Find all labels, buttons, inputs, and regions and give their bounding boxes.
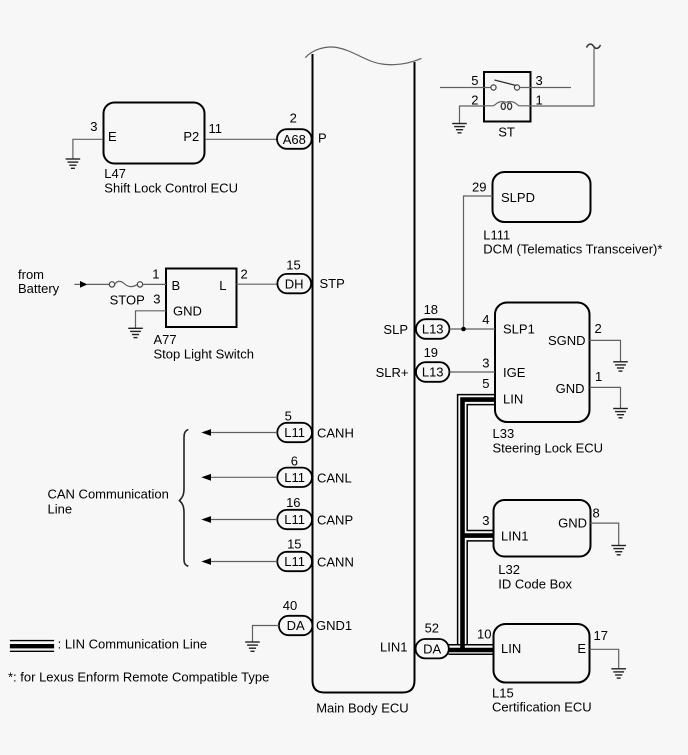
wire GND to ground	[590, 387, 621, 408]
svg-text:L47: L47	[104, 166, 126, 181]
svg-text:SLPD: SLPD	[501, 190, 535, 205]
svg-text:A77: A77	[154, 332, 177, 347]
svg-text:L11: L11	[284, 512, 305, 527]
LIN bus branch thick to L32	[461, 533, 494, 538]
wire L32 GND to ground	[591, 523, 619, 545]
svg-text:4: 4	[482, 312, 489, 327]
svg-text:CANH: CANH	[317, 426, 354, 441]
svg-text:GND: GND	[556, 381, 585, 396]
LIN bus outer thin line	[458, 395, 495, 645]
wire CANP arrow	[211, 519, 277, 521]
connector DH pin 15 STP	[277, 258, 344, 294]
ST relay box	[471, 72, 542, 140]
svg-text:*: for Lexus Enform Remote Com: *: for Lexus Enform Remote Compatible Ty…	[8, 670, 269, 685]
svg-text:SGND: SGND	[548, 333, 586, 348]
svg-text:52: 52	[425, 621, 439, 636]
wire SLPD pin 29 down to SLP node	[464, 196, 493, 329]
svg-text:DA: DA	[423, 641, 441, 656]
svg-text:40: 40	[283, 598, 297, 613]
svg-text:LIN: LIN	[503, 392, 523, 407]
connector L11 pin 16 CANP	[277, 495, 353, 529]
node junction dot	[461, 327, 466, 332]
svg-text:: LIN Communication Line: : LIN Communication Line	[58, 637, 208, 652]
svg-text:L11: L11	[284, 554, 305, 569]
svg-text:Main Body ECU: Main Body ECU	[316, 701, 408, 716]
svg-text:GND: GND	[558, 516, 587, 531]
ground at L32	[611, 546, 626, 555]
certification ECU L15	[477, 624, 608, 715]
connector L13 pin 19 SLR+	[376, 345, 450, 382]
svg-text:DCM (Telematics Transceiver)*: DCM (Telematics Transceiver)*	[483, 242, 662, 257]
svg-text:17: 17	[594, 628, 608, 643]
LIN bus thick line	[463, 400, 496, 651]
svg-text:3: 3	[536, 73, 543, 88]
wire battery to fuse	[87, 283, 109, 285]
svg-text:10: 10	[477, 627, 491, 642]
svg-text:3: 3	[90, 119, 97, 134]
svg-text:Shift Lock Control ECU: Shift Lock Control ECU	[104, 181, 238, 196]
svg-text:P: P	[318, 130, 327, 145]
svg-text:15: 15	[287, 536, 301, 551]
svg-text:LIN: LIN	[501, 641, 521, 656]
svg-text:GND1: GND1	[316, 618, 352, 633]
connector A68 pin 2	[277, 111, 327, 149]
wire CANL arrow	[211, 476, 277, 478]
ground at ST	[452, 124, 467, 133]
LIN bus to L15 bottom thin	[449, 653, 494, 655]
svg-text:E: E	[108, 129, 117, 144]
svg-text:3: 3	[482, 513, 489, 528]
LIN bus inner thin line upper	[467, 405, 495, 531]
svg-text:DH: DH	[285, 276, 304, 291]
wire break squiggle	[587, 44, 601, 48]
ID code box L32	[482, 500, 599, 592]
svg-text:1: 1	[595, 369, 602, 384]
svg-text:CANP: CANP	[317, 512, 353, 527]
svg-text:CANL: CANL	[317, 470, 352, 485]
svg-text:6: 6	[291, 453, 298, 468]
svg-text:L13: L13	[422, 365, 444, 380]
ST relay coil	[484, 102, 531, 106]
svg-text:from: from	[18, 267, 44, 282]
main body ECU box	[305, 47, 421, 715]
svg-text:2: 2	[290, 111, 297, 126]
svg-text:2: 2	[471, 93, 478, 108]
svg-text:Line: Line	[48, 502, 73, 517]
svg-text:B: B	[172, 278, 181, 293]
LIN bus to L15 top thin	[449, 644, 494, 646]
svg-text:8: 8	[593, 506, 600, 521]
svg-text:3: 3	[482, 356, 489, 371]
svg-text:19: 19	[424, 345, 438, 360]
battery feed arrow	[74, 283, 80, 285]
ground at L47	[66, 159, 81, 168]
wire ST pin 1 up to break	[531, 49, 595, 107]
ground at A77	[128, 328, 143, 337]
svg-text:CANN: CANN	[317, 554, 354, 569]
svg-text:1: 1	[152, 266, 159, 281]
from battery label	[18, 267, 60, 296]
stop light switch A77	[152, 266, 254, 361]
svg-text:E: E	[577, 641, 586, 656]
svg-text:Battery: Battery	[18, 281, 60, 296]
svg-text:SLP1: SLP1	[503, 322, 535, 337]
svg-text:5: 5	[471, 73, 478, 88]
brace CAN group	[180, 430, 189, 567]
wire ST pin 5	[440, 87, 491, 89]
shift lock control ECU L47	[90, 103, 238, 196]
svg-text:P2: P2	[183, 129, 199, 144]
svg-text:ID Code Box: ID Code Box	[498, 577, 572, 592]
svg-text:L13: L13	[422, 322, 444, 337]
svg-text:IGE: IGE	[503, 365, 526, 380]
svg-text:A68: A68	[283, 132, 306, 147]
svg-text:STP: STP	[320, 276, 345, 291]
connector L13 pin 18 SLP	[383, 302, 449, 339]
LIN legend symbol	[10, 637, 207, 652]
CAN communication line label	[48, 487, 169, 517]
ground at L33 GND	[613, 409, 628, 418]
wire ST pin 3	[520, 87, 571, 89]
svg-text:GND: GND	[173, 304, 202, 319]
connector L11 pin 5 CANH	[277, 409, 354, 443]
svg-text:SLP: SLP	[383, 322, 408, 337]
connector L11 pin 15 CANN	[277, 536, 354, 571]
wire ST pin 2 to ground	[460, 106, 485, 123]
svg-text:L32: L32	[498, 562, 520, 577]
wire SLR+ to IGE	[449, 371, 495, 373]
connector DA pin 40 GND1	[279, 598, 352, 635]
wire CANH arrow	[211, 432, 277, 434]
svg-text:15: 15	[286, 258, 300, 273]
wire GND1 to ground	[253, 626, 279, 642]
wire A77 L pin 2 to connector DH	[237, 283, 278, 285]
svg-text:L11: L11	[284, 425, 305, 440]
wire fuse to A77 B pin 1	[143, 283, 166, 285]
svg-text:CAN Communication: CAN Communication	[48, 487, 169, 502]
svg-text:2: 2	[241, 267, 248, 282]
svg-text:L33: L33	[493, 426, 515, 441]
svg-text:5: 5	[285, 409, 292, 424]
connector DA pin 52 LIN1	[380, 621, 449, 659]
wire SGND to ground	[590, 340, 621, 361]
LIN bus inner thin line lower	[467, 541, 493, 645]
wire L47 E to ground	[73, 139, 103, 158]
svg-text:LIN1: LIN1	[501, 529, 528, 544]
steering lock ECU L33	[482, 303, 603, 456]
svg-text:Certification ECU: Certification ECU	[492, 700, 592, 715]
DCM telematics transceiver L111	[472, 172, 662, 257]
fuse STOP	[109, 281, 144, 307]
svg-text:1: 1	[536, 93, 543, 108]
wire CANN arrow	[211, 561, 277, 563]
svg-text:SLR+: SLR+	[376, 365, 409, 380]
wire SLP to SLP1	[449, 328, 495, 330]
ground at GND1	[245, 642, 260, 651]
connector L11 pin 6 CANL	[277, 453, 351, 487]
svg-text:L: L	[219, 278, 226, 293]
svg-text:Stop Light Switch: Stop Light Switch	[154, 347, 254, 362]
svg-text:DA: DA	[287, 618, 305, 633]
svg-text:L15: L15	[492, 686, 514, 701]
svg-text:L111: L111	[483, 228, 510, 243]
wire A77 GND pin 3 to ground	[136, 311, 167, 328]
svg-text:LIN1: LIN1	[380, 640, 407, 655]
svg-text:11: 11	[209, 121, 223, 136]
svg-text:STOP: STOP	[110, 293, 145, 308]
svg-text:Steering Lock ECU: Steering Lock ECU	[493, 441, 604, 456]
ST switch contacts	[491, 80, 520, 90]
svg-text:5: 5	[482, 376, 489, 391]
svg-text:18: 18	[424, 302, 438, 317]
svg-text:2: 2	[595, 321, 602, 336]
ground at SGND	[613, 362, 628, 371]
svg-text:ST: ST	[498, 125, 515, 140]
wire L15 E to ground	[590, 649, 619, 668]
svg-text:3: 3	[153, 292, 160, 307]
svg-text:L11: L11	[284, 470, 305, 485]
LIN bus to L15 thick	[449, 648, 494, 653]
svg-text:16: 16	[286, 495, 300, 510]
wire L47 P2 to connector A68	[205, 138, 277, 140]
svg-text:29: 29	[472, 180, 486, 195]
ground at L15	[611, 669, 626, 678]
